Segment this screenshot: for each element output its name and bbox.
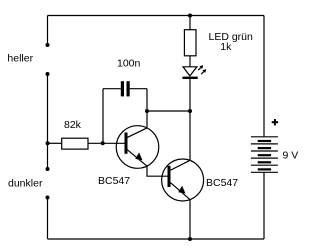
LED arrow 2 head: [203, 69, 207, 73]
svg-text:BC547: BC547: [206, 177, 238, 189]
wire 82k right lead to Q1 base: [88, 142, 125, 144]
wire LED to Q2 collector: [189, 79, 191, 160]
wire Q1 emitter down: [147, 166, 168, 176]
wire bottom rail: [48, 238, 265, 240]
battery BT1 short plate 3: [258, 154, 271, 156]
LED arrow 1 head: [200, 65, 204, 69]
wire left rail middle: [47, 74, 49, 169]
svg-text:100n: 100n: [117, 57, 141, 69]
LED D1 triangle: [183, 67, 197, 76]
battery BT1 short plate 1: [258, 140, 271, 142]
wire left rail lower: [47, 198, 49, 240]
LED light arrow 2: [201, 71, 204, 74]
wire capacitor left lead: [103, 88, 121, 90]
wire R1 to LED: [189, 56, 191, 67]
wire top rail: [48, 15, 265, 17]
wire cap right down to Q1 collector: [146, 89, 148, 128]
wire cap left down to base node: [102, 89, 104, 144]
transistor Q1 base bar: [125, 133, 128, 154]
node dunkler top: [46, 167, 50, 171]
wire 82k left lead: [48, 142, 62, 144]
node bottom rail: [188, 237, 192, 241]
wire capacitor right lead: [130, 88, 147, 90]
svg-text:1k: 1k: [220, 41, 232, 53]
transistor Q2 emitter arrow: [178, 186, 185, 194]
battery plus sign: [272, 119, 278, 125]
LED light arrow 1: [198, 67, 201, 70]
transistor Q2 collector line: [170, 160, 190, 170]
node cap to base: [101, 141, 105, 145]
wire left rail upper: [47, 16, 49, 46]
battery BT1 long plate 3: [251, 150, 278, 152]
LED D1 cathode bar: [182, 77, 197, 79]
node dunkler bottom: [46, 196, 50, 200]
capacitor C1 plate left: [121, 81, 124, 96]
battery BT1 long plate 5: [251, 164, 278, 166]
wire right rail upper: [263, 16, 265, 137]
transistor Q1 emitter line: [127, 149, 147, 166]
node heller top: [46, 43, 50, 47]
transistor Q1 collector line: [127, 128, 147, 138]
battery BT1 long plate 4: [251, 157, 278, 159]
transistor Q2 emitter line: [170, 182, 190, 199]
battery BT1 long plate 2: [251, 143, 278, 145]
resistor R2 82k body: [62, 138, 88, 149]
svg-text:9 V: 9 V: [283, 150, 299, 162]
node LED line: [188, 109, 192, 113]
node cap to Q1 collector: [145, 109, 149, 113]
node top rail: [188, 14, 192, 18]
battery BT1 long plate 6: [251, 171, 278, 173]
svg-text:dunkler: dunkler: [8, 178, 43, 190]
capacitor C1 plate right: [127, 81, 130, 96]
battery BT1 short plate 2: [258, 147, 271, 149]
svg-text:BC547: BC547: [98, 175, 130, 187]
wire node to LED line: [147, 110, 190, 112]
transistor Q2 circle: [162, 159, 204, 201]
wire Q2 emitter down: [189, 200, 191, 239]
wire LED branch top: [189, 16, 191, 30]
node heller bottom: [46, 72, 50, 76]
battery BT1 long plate 1: [251, 136, 278, 138]
wire right rail lower: [263, 172, 265, 239]
svg-text:82k: 82k: [64, 119, 82, 131]
battery BT1 short plate 4: [258, 161, 271, 163]
transistor Q1 emitter arrow: [135, 153, 142, 161]
resistor R1 1k body: [184, 30, 196, 56]
battery BT1 short plate 5: [258, 168, 271, 170]
transistor Q1 circle: [116, 126, 159, 169]
node 82k junction: [46, 141, 50, 145]
svg-text:heller: heller: [7, 53, 33, 65]
transistor Q2 base bar: [168, 166, 171, 187]
